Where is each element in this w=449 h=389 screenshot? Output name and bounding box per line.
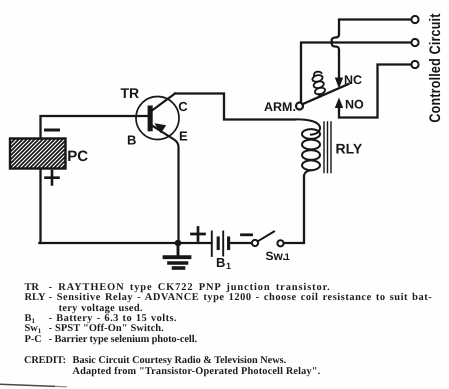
NO contact arrowhead [335, 98, 343, 109]
wire ground bus bottom [39, 242, 211, 244]
svg-text:1: 1 [226, 261, 231, 271]
label B1 [216, 255, 231, 271]
transistor base bar [148, 106, 153, 132]
polarity plus (battery) [192, 228, 205, 241]
switch Sw1 throw [277, 240, 283, 246]
terminal 1 [411, 16, 418, 23]
armature spring [312, 72, 326, 97]
wire PC top to base [41, 116, 148, 139]
terminal 3 [411, 61, 418, 68]
wire coil bottom to switch [284, 176, 305, 243]
legend line P-C [25, 335, 42, 345]
transistor collector lead [152, 94, 175, 111]
svg-text:B: B [216, 255, 225, 270]
junction dot (emitter/ground/battery) [175, 240, 182, 247]
transistor emitter lead [152, 126, 179, 244]
armature pivot [296, 103, 303, 110]
legend line Sw1 [25, 324, 42, 336]
ground symbol [165, 243, 190, 268]
wire battery to switch [230, 242, 252, 244]
credit line 2 [73, 367, 321, 377]
switch Sw1 pole [252, 240, 258, 246]
svg-text:NC: NC [344, 73, 362, 87]
photocell PC body [0, 124, 110, 170]
scan artifact line bottom left [0, 380, 80, 389]
svg-text:RLY: RLY [336, 141, 363, 157]
svg-text:NO: NO [345, 98, 364, 112]
terminal 2 [411, 39, 418, 46]
svg-text:TR: TR [121, 85, 140, 101]
legend line B1 [25, 314, 35, 326]
switch Sw1 lever [258, 232, 274, 242]
svg-text:B: B [127, 133, 136, 148]
svg-text:ARM.: ARM. [264, 100, 296, 114]
battery B1 plates [212, 232, 229, 257]
svg-text:C: C [178, 99, 188, 114]
svg-text:Sw.: Sw. [266, 249, 286, 263]
svg-text:E: E [179, 129, 188, 144]
svg-text:1: 1 [285, 252, 291, 263]
polarity plus (PC) [46, 171, 59, 184]
legend line TR [25, 283, 39, 293]
wire collector to relay coil [175, 94, 295, 120]
credit line 1 [24, 356, 66, 366]
wire relay coil top to armature pivot riser [301, 43, 412, 103]
NC contact arrowhead [335, 78, 343, 89]
legend line RLY [25, 293, 46, 303]
label Sw.1 [266, 249, 291, 263]
svg-text:PC: PC [67, 148, 88, 165]
polarity minus (PC) [46, 129, 59, 132]
relay core bars [324, 122, 331, 173]
polarity minus (battery) [242, 233, 252, 236]
transistor emitter arrow (PNP) [154, 123, 166, 133]
wire PC bottom to ground bus [39, 169, 41, 244]
transistor TR circle [136, 97, 179, 140]
svg-text:Controlled Circuit: Controlled Circuit [427, 13, 444, 123]
armature blade [302, 84, 348, 104]
wire NO contact from terminal 3 [339, 65, 412, 118]
wire NC contact from terminal 1 (with hop) [332, 20, 412, 83]
relay coil RLY loops [293, 119, 320, 176]
